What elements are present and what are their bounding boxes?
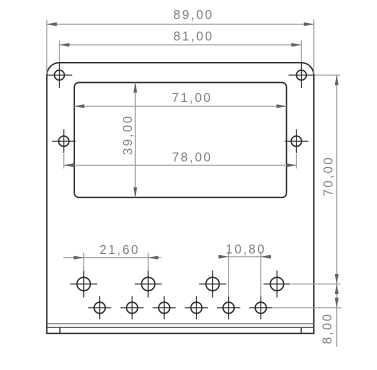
svg-text:21,60: 21,60 — [99, 243, 140, 257]
bottom bend line lower — [47, 326, 314, 328]
dimension 21,60 large hole pitch — [63, 243, 161, 270]
plate outline — [47, 63, 314, 334]
hole B2 mid-right — [285, 129, 309, 153]
rectangular cutout — [74, 83, 286, 198]
hole B1 mid-left — [52, 129, 76, 153]
svg-text:8,00: 8,00 — [321, 312, 335, 344]
hole C3 bottom large — [199, 271, 226, 298]
hole D4 bottom small — [185, 296, 208, 319]
dimension 8,00 vertical right — [273, 284, 341, 347]
bottom flange tick left — [59, 327, 61, 333]
svg-text:81,00: 81,00 — [173, 30, 214, 44]
svg-text:89,00: 89,00 — [173, 8, 214, 22]
svg-text:70,00: 70,00 — [321, 156, 335, 197]
hole D5 bottom small — [217, 296, 240, 319]
dimension 71,00 cutout width — [74, 91, 286, 108]
dimension 78,00 mid holes span — [64, 150, 297, 168]
hole C2 bottom large — [135, 271, 162, 298]
svg-text:10,80: 10,80 — [226, 242, 267, 256]
dimension 89,00 overall width — [47, 8, 314, 74]
hole D3 bottom small — [153, 296, 176, 319]
svg-text:78,00: 78,00 — [172, 150, 213, 164]
hole D6 bottom small — [249, 296, 272, 319]
svg-text:71,00: 71,00 — [172, 91, 213, 105]
dimension 10,80 small hole pitch — [218, 242, 271, 296]
bottom flange tick right — [300, 327, 302, 333]
hole A1 top-left — [47, 62, 73, 88]
dimension 39,00 cutout height (vertical) — [121, 83, 137, 198]
hole A2 top-right — [289, 62, 315, 88]
hole D2 bottom small — [120, 296, 143, 319]
hole C1 bottom large — [70, 271, 97, 298]
dimension 81,00 top holes span — [59, 30, 301, 62]
svg-text:39,00: 39,00 — [121, 114, 135, 155]
hole C4 bottom large — [264, 271, 291, 298]
hole D1 bottom small — [88, 296, 111, 319]
bottom bend line upper — [47, 323, 314, 325]
dimension 70,00 vertical right — [292, 75, 341, 284]
